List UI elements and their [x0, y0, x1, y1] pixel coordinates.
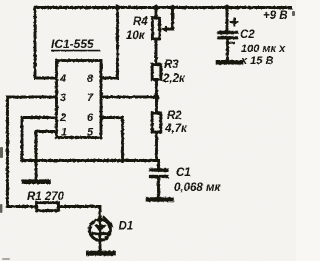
node: junction dot R4 top on rail: [153, 5, 158, 10]
svg-text:R3: R3: [164, 59, 179, 71]
wire: rail to IC pin 4: [35, 8, 56, 79]
ground: pin 1 ground bar: [24, 179, 49, 184]
wire: IC pin 1 to ground: [36, 132, 56, 180]
wire: IC pin 6 down to threshold net: [101, 118, 123, 161]
svg-text:4: 4: [59, 73, 66, 85]
svg-text:0,068 мк: 0,068 мк: [174, 182, 221, 194]
svg-text:7: 7: [87, 92, 94, 104]
svg-text:+9 В: +9 В: [263, 10, 288, 22]
wire: +9V top supply rail: [35, 6, 291, 9]
wire: IC pin 3 output to R1: [8, 97, 57, 207]
svg-text:5: 5: [87, 127, 94, 139]
node: junction dot R4 wiper on rail: [170, 5, 175, 10]
node: junction dot pin7 / R3 / R2: [154, 94, 159, 99]
wire: LED emission arrow: [103, 217, 113, 227]
svg-text:4,7к: 4,7к: [164, 123, 188, 135]
resistor R3: 2.2k body: [152, 65, 161, 98]
svg-text:3: 3: [60, 92, 66, 104]
wire: IC pin 2 to C1 node: [22, 118, 159, 161]
resistor R1: 270 ohm body: [8, 203, 100, 211]
svg-text:10к: 10к: [126, 30, 146, 42]
svg-text:R4: R4: [133, 16, 148, 28]
svg-text:1: 1: [61, 127, 67, 139]
svg-text:R2: R2: [167, 110, 182, 122]
svg-text:C1: C1: [176, 167, 191, 179]
node: junction dot pin6 net on C1 line: [120, 158, 125, 163]
svg-text:100 мк х: 100 мк х: [241, 43, 286, 55]
ground: LED ground bar: [89, 251, 114, 256]
wire: IC pin 7 to R3/R2 junction: [101, 96, 157, 99]
ground: C2 ground bar: [218, 60, 241, 65]
svg-text:C2: C2: [240, 29, 255, 41]
svg-text:2,2к: 2,2к: [162, 73, 186, 85]
IC1-555 value label: [51, 37, 100, 51]
svg-text:х 15 В: х 15 В: [240, 55, 273, 67]
ground: C1 ground bar: [148, 197, 172, 202]
svg-text:8: 8: [87, 73, 94, 85]
wire: IC pin 8 to rail: [101, 8, 118, 79]
resistor R4: potentiometer body 10k: [152, 8, 159, 65]
node: junction dot C2 on rail: [224, 5, 229, 10]
svg-text:D1: D1: [119, 221, 134, 233]
svg-text:IC1-555: IC1-555: [51, 37, 94, 51]
capacitor C1: 0.068uF plates: [151, 161, 168, 198]
op-amp U1: IC1-555 timer body: [57, 61, 102, 138]
diode D1: LED circle and junction: [90, 207, 111, 252]
svg-text:R1 270: R1 270: [27, 191, 65, 203]
capacitor C2: electrolytic 100uF plates: [219, 8, 238, 61]
wire: R4 wiper arm to rail: [160, 8, 172, 33]
svg-text:6: 6: [87, 112, 94, 124]
svg-text:2: 2: [59, 112, 66, 124]
node: junction dot pin8 riser on rail: [115, 5, 120, 10]
resistor R2: 4.7k body: [152, 97, 161, 161]
